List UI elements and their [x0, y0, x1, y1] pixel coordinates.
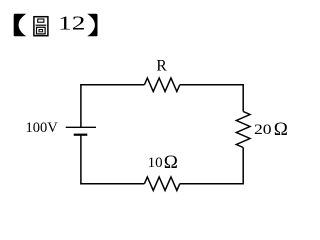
svg-text:1: 1: [58, 13, 72, 34]
resistor 10Ω (zigzag): [144, 177, 179, 191]
label 20Ω: [254, 119, 288, 140]
wire right upper: [242, 84, 244, 112]
wire bottom-right: [180, 183, 243, 185]
label 10Ω: [148, 152, 178, 173]
svg-text:Ω: Ω: [274, 119, 288, 140]
figure title bracket right 】: [87, 14, 97, 37]
wire top-right: [180, 84, 243, 86]
resistor 20Ω (vertical zigzag): [236, 112, 250, 148]
wire right lower: [242, 148, 244, 185]
wire top-left: [80, 84, 144, 86]
svg-text:R: R: [156, 57, 167, 74]
figure title character 圖: [34, 17, 48, 36]
figure title bracket left 【: [14, 14, 27, 37]
wire bottom-left: [80, 183, 144, 185]
svg-text:10: 10: [148, 155, 163, 171]
resistor R (zigzag): [144, 78, 179, 92]
wire left lower (from battery): [80, 135, 82, 185]
battery 100V positive plate (long): [66, 126, 96, 128]
svg-text:100V: 100V: [25, 120, 58, 136]
wire left upper (to battery): [80, 84, 82, 127]
label R: [156, 57, 167, 74]
svg-text:2: 2: [72, 13, 86, 34]
battery 100V negative plate (short): [74, 134, 88, 136]
figure title text 12: [58, 13, 85, 34]
svg-text:20: 20: [254, 122, 272, 138]
svg-text:Ω: Ω: [164, 152, 178, 173]
label 100V: [25, 120, 58, 136]
